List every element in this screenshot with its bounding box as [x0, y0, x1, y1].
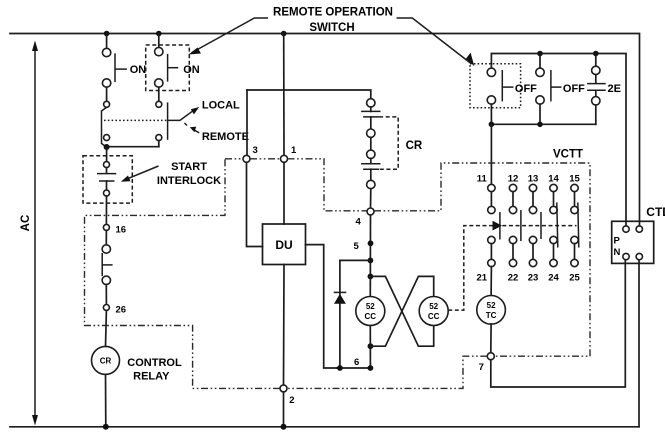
contact CR lower: [361, 150, 380, 189]
VCTT contact column 14-24 closed: [550, 184, 558, 266]
svg-text:REMOTE: REMOTE: [202, 131, 249, 143]
pushbutton OFF local: [536, 54, 562, 125]
junction selector common: [104, 144, 110, 150]
relay coil CR control relay: [92, 346, 120, 374]
wire 52TC to node 7: [490, 324, 492, 353]
wire CR coil to bottom bus: [105, 374, 107, 426]
box DU: [263, 224, 306, 265]
terminal CTD top N: [636, 226, 642, 232]
junction CR column at bottom bus: [103, 424, 109, 430]
pushbutton ON remote: [155, 34, 179, 102]
svg-text:CTD: CTD: [646, 205, 665, 219]
svg-text:22: 22: [508, 273, 519, 284]
wire CR contact branch top: [247, 90, 371, 99]
svg-text:16: 16: [116, 225, 127, 236]
svg-text:2E: 2E: [608, 83, 621, 95]
svg-text:52: 52: [429, 302, 438, 311]
svg-text:SWITCH: SWITCH: [309, 22, 354, 34]
svg-text:REMOTE OPERATION: REMOTE OPERATION: [273, 7, 393, 19]
svg-text:DU: DU: [275, 238, 292, 252]
selector contact local column: [102, 101, 110, 147]
wire between CR contacts: [370, 137, 372, 150]
terminal 16: [103, 224, 109, 230]
junction crossover branch B: [368, 343, 374, 349]
dashed bracket CR contacts: [379, 117, 398, 169]
dashed mechanical linkage VCTT: [448, 221, 576, 310]
wire CR contact to node 4: [370, 189, 372, 208]
svg-text:25: 25: [569, 273, 580, 284]
junction OFF1 bottom: [489, 122, 495, 128]
svg-text:13: 13: [528, 174, 539, 185]
VCTT contact column 12-22: [509, 184, 521, 266]
svg-text:2: 2: [289, 395, 294, 406]
svg-text:TC: TC: [486, 311, 497, 320]
VCTT contact column 13-23: [529, 184, 541, 266]
svg-text:N: N: [614, 247, 621, 258]
svg-text:CONTROL: CONTROL: [127, 357, 182, 369]
junction diode branch: [368, 258, 374, 264]
junction OFF2 bottom: [537, 122, 543, 128]
terminal 26: [103, 305, 109, 311]
mechanical link dotted line selector: [104, 119, 168, 121]
contact CR upper: [361, 99, 380, 138]
wire terminal 26 to CR coil: [105, 311, 108, 347]
label CONTROL RELAY: [127, 357, 182, 383]
junction node6 main: [368, 365, 374, 371]
junction OFF2 top: [537, 51, 543, 57]
enclosure dash-dot node2 left segment: [85, 159, 281, 389]
wire junction to start interlock: [106, 147, 108, 162]
wire OFF bus down to VCTT contact 11: [490, 124, 492, 184]
svg-text:P: P: [614, 236, 621, 247]
VCTT contact column 15-25 closed: [571, 184, 579, 266]
dashed box remote ON pushbutton: [146, 45, 190, 91]
svg-text:7: 7: [479, 362, 484, 373]
AC supply rail with arrows: [32, 41, 38, 426]
junction node6 diode: [337, 365, 343, 371]
dashed box START INTERLOCK: [83, 156, 132, 203]
svg-text:11: 11: [477, 174, 488, 185]
junction node2 column at bottom bus: [281, 424, 287, 430]
svg-text:OFF: OFF: [563, 83, 585, 95]
svg-text:ON: ON: [130, 64, 147, 76]
wire top AC bus: [10, 34, 640, 226]
junction node top line at ON2: [156, 31, 162, 37]
node 7: [487, 353, 494, 360]
terminal CTD top P: [623, 226, 629, 232]
arrow to start interlock contact: [121, 166, 159, 182]
node 2: [280, 385, 287, 392]
svg-text:26: 26: [116, 305, 127, 316]
wire node1 column from top bus: [283, 34, 285, 156]
enclosure dash-dot node4 to VCTT top: [374, 163, 590, 356]
selector LOCAL-REMOTE lever: [168, 102, 200, 139]
svg-text:24: 24: [548, 273, 559, 284]
wire DU bottom to node 2: [283, 265, 286, 385]
dotted box remote OFF pushbutton: [470, 64, 521, 108]
svg-text:START: START: [171, 161, 207, 173]
label START INTERLOCK: [157, 161, 221, 187]
svg-text:AC: AC: [20, 215, 32, 232]
wire right rail lower (CTD to bottom bus): [638, 260, 640, 427]
wire node2 to bottom bus: [283, 392, 285, 427]
junction 2E top: [593, 51, 599, 57]
svg-text:5: 5: [354, 241, 360, 252]
pushbutton OFF remote: [487, 68, 513, 124]
wire node 6 horizontal: [337, 367, 371, 369]
wire bottom AC bus: [10, 426, 639, 428]
svg-text:VCTT: VCTT: [553, 149, 583, 161]
terminal CTD bottom right: [636, 253, 642, 259]
svg-text:LOCAL: LOCAL: [202, 100, 240, 112]
wire node3 column upper: [246, 90, 248, 155]
node 4: [367, 208, 374, 215]
svg-text:14: 14: [548, 174, 559, 185]
wire diode branch horizontal: [340, 259, 371, 261]
node 1: [281, 155, 288, 162]
diode D1: [334, 292, 347, 303]
node 5: [368, 240, 374, 246]
wire node7 loop to CTD bottom left: [491, 260, 626, 387]
coil 52TC: [477, 296, 506, 325]
svg-text:6: 6: [354, 357, 359, 368]
wire selector common to junction: [107, 146, 159, 148]
wire main column node4 to coil: [369, 215, 371, 297]
coil 52CC right: [419, 297, 448, 326]
box CTD: [612, 221, 654, 263]
svg-text:15: 15: [569, 174, 580, 185]
svg-text:52: 52: [487, 301, 496, 310]
svg-text:CC: CC: [428, 312, 440, 321]
enclosure dash-dot node3 to node1 segment: [250, 158, 281, 160]
pushbutton ON local: [102, 34, 127, 102]
wire OFF section top bus: [491, 54, 626, 226]
junction crossover branch: [368, 274, 374, 280]
enclosure dash-dot node7 left to node2: [287, 356, 487, 388]
svg-text:21: 21: [477, 273, 488, 284]
svg-text:23: 23: [528, 273, 539, 284]
svg-text:3: 3: [253, 145, 258, 156]
wire crossover path A to coil2 bottom: [370, 276, 433, 346]
contact START INTERLOCK: [97, 162, 116, 197]
enclosure dash-dot node3 left segment: [225, 158, 243, 160]
svg-text:1: 1: [291, 145, 297, 156]
junction node top line at node1 column: [281, 31, 287, 37]
enclosure dash-dot node1 right segment: [288, 159, 368, 211]
junction node top line at ON1: [104, 31, 110, 37]
VCTT contact column 11-21: [488, 184, 500, 266]
svg-text:RELAY: RELAY: [133, 371, 170, 383]
contact 16-26 drawout: [102, 230, 112, 304]
svg-text:CC: CC: [365, 312, 377, 321]
svg-text:OFF: OFF: [515, 83, 537, 95]
svg-text:52: 52: [366, 302, 375, 311]
wire node1 to DU top: [283, 162, 285, 224]
node 3: [243, 155, 250, 162]
wire crossover path B to coil2 top: [370, 276, 433, 346]
arrow REMOTE position: [190, 127, 199, 133]
wire node3 to DU left: [247, 162, 263, 246]
coil 52CC left: [356, 297, 385, 326]
svg-text:CR: CR: [100, 357, 112, 366]
arrow from label to ON remote pushbutton: [189, 18, 269, 55]
svg-text:INTERLOCK: INTERLOCK: [157, 175, 221, 187]
svg-text:12: 12: [508, 174, 519, 185]
arrow from label to OFF remote pushbutton: [397, 18, 475, 66]
contact 2E: [587, 54, 606, 125]
svg-text:CR: CR: [406, 140, 423, 152]
selector contact remote column: [156, 101, 162, 146]
wire coil1 bottom to node 6: [369, 326, 371, 369]
svg-text:4: 4: [356, 217, 362, 228]
svg-text:ON: ON: [183, 64, 200, 76]
wire DU right output to node 6: [306, 245, 337, 368]
terminal CTD bottom left: [623, 253, 629, 259]
wire OFF section bottom bus: [491, 123, 595, 125]
wire contact 21 to 52TC coil: [490, 267, 492, 296]
wire diode branch vertical: [339, 260, 341, 368]
label REMOTE OPERATION SWITCH: [273, 7, 393, 35]
wire start interlock to terminal 16: [105, 196, 107, 224]
